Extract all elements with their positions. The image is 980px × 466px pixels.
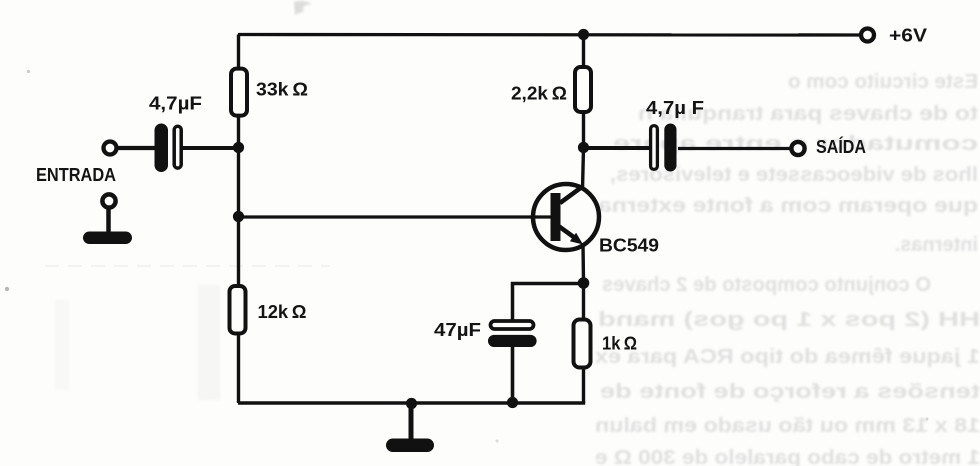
svg-text:+6V: +6V (889, 26, 927, 46)
wire: 33k bottom to 12k top (237, 116, 240, 286)
node A (junction divider / C1) (233, 142, 244, 153)
wire: 12k bottom to ground rail (237, 334, 240, 404)
wire: input terminal to C1 (118, 146, 155, 150)
svg-text:que operam com a fonte externa: que operam com a fonte externa (597, 195, 978, 217)
svg-text:ENTRADA: ENTRADA (36, 165, 116, 185)
wire: C2 to SAÍDA terminal (678, 147, 791, 150)
svg-text:18 x 13 mm ou tão usado em bal: 18 x 13 mm ou tão usado em balun (595, 415, 980, 437)
wire: ground stem (409, 404, 414, 441)
svg-text:4,7µ F: 4,7µ F (646, 98, 704, 118)
wire: rail down to 33k (237, 35, 240, 69)
wire: collector up from transistor (583, 148, 584, 191)
wire: node D to C2 (583, 146, 650, 150)
resistor R1 33kΩ (231, 69, 247, 116)
wire: post to input ground (106, 208, 111, 233)
svg-text:Este circuito com o: Este circuito com o (788, 71, 978, 93)
wire: base wire node B to Q1 (238, 215, 551, 218)
svg-text:BC549: BC549 (599, 236, 659, 256)
ground (main) (386, 439, 434, 453)
ground (input) (83, 232, 132, 245)
svg-text:1 metro de cabo paralelo de 30: 1 metro de cabo paralelo de 300 Ω e (595, 447, 980, 466)
svg-text:SAÍDA: SAÍDA (816, 136, 866, 157)
resistor R3 2,2kΩ (575, 67, 591, 112)
wire: node E left and down to C3 (513, 284, 584, 322)
node E (emitter junction) (578, 277, 590, 289)
svg-text:2,2k Ω: 2,2k Ω (511, 84, 567, 104)
node G (ground junction) (406, 398, 417, 409)
wire: +6V top supply rail (238, 33, 859, 37)
capacitor C1 4,7µF (input) (155, 124, 182, 173)
node D (collector / output junction) (578, 142, 589, 153)
svg-text:1 jaque fêmea do tipo RCA para: 1 jaque fêmea do tipo RCA para ex (595, 346, 980, 368)
wire: C1 to node A (182, 146, 238, 150)
terminal input ground post (102, 194, 115, 207)
node F (C3 / rail junction) (507, 397, 518, 408)
svg-text:tensões a reforço de fonte: tensões a reforço de fonte de (600, 381, 980, 403)
capacitor C3 47µF (bypass) (488, 321, 537, 347)
background bleed-through text (mirrored, decorative) (595, 71, 980, 466)
node B (junction base wire) (233, 211, 244, 222)
wire: emitter down to node E (581, 243, 585, 283)
terminal input (ENTRADA) (104, 142, 117, 155)
svg-text:O conjunto composto de 2 chav: O conjunto composto de 2 chaves (602, 274, 931, 296)
terminal +6V (861, 29, 874, 42)
resistor R4 1kΩ (574, 320, 591, 368)
node C (collector junction on +6V rail) (578, 29, 589, 40)
svg-text:1k Ω: 1k Ω (602, 334, 637, 354)
wire: node E down to R4 (582, 283, 585, 320)
terminal SAÍDA (791, 142, 804, 155)
svg-text:47µF: 47µF (434, 320, 481, 340)
capacitor C2 4,7µF (output) (651, 124, 677, 172)
svg-text:4,7µF: 4,7µF (149, 94, 202, 114)
wire: bottom ground rail (238, 401, 585, 405)
wire: R3 bottom to collector node (582, 112, 585, 148)
wire: R4 bottom to ground rail (582, 368, 585, 404)
wire: rail to R3 (582, 35, 585, 68)
svg-text:33k Ω: 33k Ω (256, 80, 308, 100)
transistor Q1 BC549 (533, 184, 599, 250)
svg-text:internas.: internas. (895, 234, 978, 256)
wire: C3 bottom to ground rail (511, 346, 515, 403)
svg-text:12k Ω: 12k Ω (258, 302, 307, 322)
svg-text:HH (2 pos x 1 po gos) man: HH (2 pos x 1 po gos) mand (598, 309, 980, 331)
resistor R2 12kΩ (230, 286, 246, 334)
